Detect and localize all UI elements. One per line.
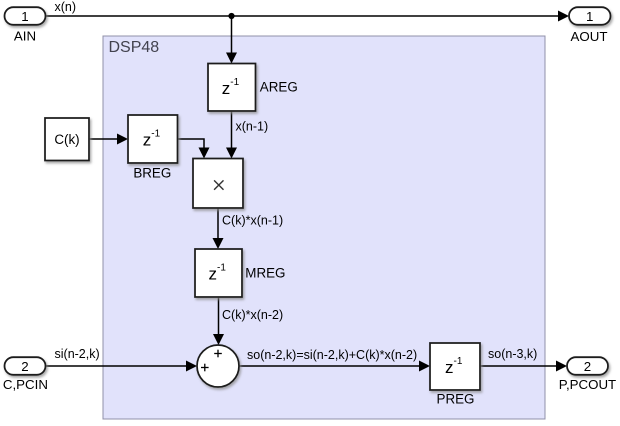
unit delay BREG: [128, 115, 178, 163]
svg-text:BREG: BREG: [133, 166, 171, 181]
wire: C(k) to BREG: [89, 134, 128, 145]
DSP48 area: [103, 36, 545, 419]
svg-text:MREG: MREG: [245, 266, 285, 281]
wire: BREG to multiplier: [178, 139, 210, 159]
wire: C,PCIN to sum: [46, 361, 197, 372]
constant C(k): [45, 118, 89, 161]
unit delay MREG: [195, 249, 242, 297]
svg-text:AOUT: AOUT: [571, 29, 608, 44]
unit delay PREG: [430, 343, 480, 390]
svg-text:AIN: AIN: [14, 29, 36, 44]
svg-text:2: 2: [21, 359, 28, 374]
svg-text:si(n-2,k): si(n-2,k): [55, 347, 100, 361]
product block: [193, 159, 243, 209]
svg-text:P,PCOUT: P,PCOUT: [559, 377, 616, 392]
svg-text:so(n-3,k): so(n-3,k): [488, 347, 537, 361]
outport 1 AOUT: [569, 7, 611, 25]
wire: junction down to AREG: [226, 16, 237, 64]
sum block: [197, 345, 239, 387]
wire: multiplier to MREG: [213, 208, 224, 249]
wire: PREG to P,PCOUT: [480, 361, 567, 372]
wire: sum to PREG: [239, 361, 430, 372]
outport 2 P,PCOUT: [567, 357, 608, 375]
svg-text:PREG: PREG: [437, 392, 475, 407]
svg-text:AREG: AREG: [260, 80, 298, 95]
svg-text:x(n-1): x(n-1): [236, 120, 269, 134]
wire: AREG to multiplier: [226, 111, 237, 159]
svg-text:1: 1: [586, 9, 593, 24]
svg-text:DSP48: DSP48: [109, 39, 160, 56]
svg-text:C(k)*x(n-1): C(k)*x(n-1): [222, 214, 283, 228]
svg-text:C(k): C(k): [54, 132, 79, 147]
svg-text:C(k)*x(n-2): C(k)*x(n-2): [222, 308, 283, 322]
inport 1 AIN: [5, 7, 46, 25]
svg-text:x(n): x(n): [55, 0, 77, 14]
unit delay AREG: [208, 64, 256, 112]
svg-text:1: 1: [21, 9, 28, 24]
svg-text:2: 2: [584, 359, 591, 374]
junction dot: [228, 13, 234, 19]
wire: MREG to sum: [213, 297, 224, 345]
svg-text:C,PCIN: C,PCIN: [3, 377, 48, 392]
svg-text:so(n-2,k)=si(n-2,k)+C(k)*x(n-2: so(n-2,k)=si(n-2,k)+C(k)*x(n-2): [247, 348, 417, 362]
wire x(n): AIN to AOUT: [46, 11, 569, 22]
inport 2 C,PCIN: [5, 357, 46, 375]
